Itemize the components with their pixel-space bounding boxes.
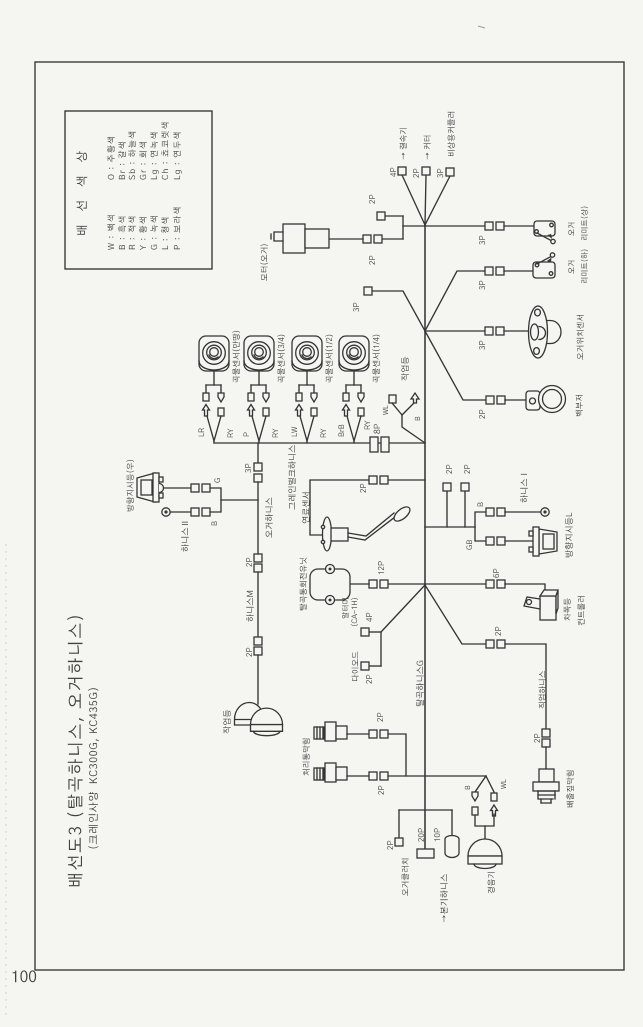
wire right branch y527 bbox=[425, 526, 475, 528]
label G bbox=[214, 478, 220, 482]
label 작업등 bbox=[223, 710, 231, 734]
terminal ring 하니스I bbox=[541, 508, 549, 516]
label 알터미 bbox=[342, 598, 349, 618]
label 12P bbox=[378, 561, 384, 574]
connector 2P diode bbox=[361, 662, 369, 670]
label 6P bbox=[493, 569, 499, 578]
label 2P bbox=[369, 256, 375, 265]
wire 3P to limit switch lower bbox=[504, 270, 534, 272]
label 곡물센서(3/4) bbox=[277, 335, 285, 383]
connector 4P 결속기 bbox=[398, 167, 406, 175]
wire main trunk vertical 탈곡하니스G bbox=[424, 225, 426, 849]
connector WL sq horn bbox=[491, 793, 497, 801]
label 2P bbox=[413, 169, 419, 178]
wire G/B bracket bbox=[210, 488, 221, 512]
label 오거 리미트(하) bbox=[568, 261, 575, 274]
wire 3P to limit switch upper bbox=[504, 225, 533, 227]
label 2P bbox=[464, 465, 470, 474]
wire plug1 joins bbox=[388, 734, 406, 776]
wire junction bus to 3P stacked bbox=[257, 443, 259, 463]
label 3P bbox=[479, 281, 485, 290]
label 컨트롤러 bbox=[578, 596, 585, 625]
wire 10P drop bbox=[451, 810, 453, 836]
wire 3P single to junction B bbox=[372, 291, 425, 331]
label 비상용커플러 bbox=[448, 112, 455, 156]
wire drop to clog sensor bbox=[545, 747, 547, 769]
wire work light branch bbox=[402, 415, 425, 443]
wire sensor 1 to bus bbox=[207, 416, 214, 443]
connector sensor 3 mating arrow bbox=[296, 405, 303, 417]
label LW bbox=[292, 427, 298, 437]
wire to WL connector bbox=[392, 403, 402, 415]
wire sensor 3 to bus bbox=[300, 416, 307, 443]
connector sensor 1 mating sq bbox=[218, 408, 224, 416]
wire junction C to 6P bbox=[425, 583, 486, 585]
label P bbox=[244, 432, 250, 436]
connector 3P stacked bbox=[254, 463, 262, 471]
limit switch upper 오거리미트(상) bbox=[534, 221, 555, 244]
label 다이오드 bbox=[352, 652, 359, 681]
label 2P bbox=[246, 558, 252, 567]
wire clutch drop bbox=[398, 810, 400, 838]
label B bbox=[212, 521, 218, 525]
label → 본기하니스 bbox=[440, 874, 448, 922]
connector 2P pair buzzer bbox=[486, 396, 494, 404]
label 작업등 upper bbox=[401, 357, 409, 381]
label 차폭등 bbox=[564, 598, 571, 620]
label WL bbox=[501, 779, 506, 789]
connector horn mating arrow bbox=[491, 805, 498, 816]
motor 모터(오거) bbox=[271, 224, 329, 253]
grain sensor 곡물센서(3/4) bbox=[244, 336, 274, 371]
label 연료센서 bbox=[302, 493, 310, 524]
label 곡물센서(1/2) bbox=[325, 335, 333, 383]
connector B arrow bbox=[411, 393, 419, 403]
connector sensor 1 arrow lead bbox=[218, 393, 224, 402]
wire sensor 3 leads bbox=[306, 371, 308, 385]
wire sensor 1 leads bbox=[213, 371, 215, 385]
wire to B pair harness I bbox=[475, 512, 486, 527]
wire junction C to 4P alt bbox=[381, 585, 425, 632]
label 2P bbox=[495, 627, 501, 636]
wire y810 horizontal bbox=[399, 809, 452, 811]
connector sensor 4 arrow lead bbox=[358, 393, 364, 402]
label 3P bbox=[479, 341, 485, 350]
label B bbox=[478, 502, 484, 506]
label → 결속기 bbox=[400, 128, 407, 159]
connector 20P bbox=[417, 849, 434, 858]
wire 2P to junction A bbox=[425, 175, 426, 225]
wire horn leads bbox=[475, 814, 494, 826]
turn signal lamp 방향지시등(우) bbox=[137, 473, 164, 502]
label 오거하니스 bbox=[265, 498, 273, 538]
label → 커터 bbox=[424, 136, 431, 160]
connector sensor 3 sq lead bbox=[296, 393, 302, 401]
wire to terminal harness I bbox=[505, 511, 541, 513]
label 하니스Ⅱ bbox=[181, 522, 189, 552]
label 2P bbox=[378, 786, 384, 795]
wire y776 horizontal to horn junction bbox=[388, 775, 486, 777]
wire left branch upper bbox=[257, 482, 259, 554]
wire left branch middle bbox=[257, 572, 259, 637]
fuel sender 연료센서 bbox=[321, 504, 412, 551]
wire horn split left bbox=[475, 776, 486, 792]
label WL bbox=[383, 405, 388, 415]
connector sensor 4 sq lead bbox=[343, 393, 349, 401]
wire 12P to rotation unit bbox=[350, 583, 369, 585]
label 3P bbox=[353, 303, 359, 312]
label 하니스M bbox=[246, 591, 254, 622]
wire plug2 to 2P bbox=[347, 775, 369, 777]
label RY bbox=[273, 429, 279, 438]
wire junction B to 3P pair second bbox=[425, 271, 485, 331]
auger position sensor 오거위치센서 bbox=[529, 306, 562, 358]
label LR bbox=[199, 428, 205, 436]
label 곡물센서(1/4) bbox=[372, 335, 380, 383]
connector 2P single motor bbox=[377, 212, 385, 220]
label 10P bbox=[434, 828, 440, 841]
connector G pair bbox=[191, 484, 199, 492]
wire to vertical drop bbox=[505, 644, 546, 729]
label GB bbox=[466, 540, 472, 550]
label 20P bbox=[418, 828, 424, 841]
wire 4P to junction A bbox=[402, 175, 425, 225]
wire sensor 2 to bus bbox=[252, 416, 259, 443]
wire junction A to motor bracket bbox=[403, 225, 425, 227]
connector 10P cylinder bbox=[445, 836, 459, 858]
label 2P bbox=[377, 713, 383, 722]
connector 3P pair third bbox=[485, 327, 493, 335]
label 2P bbox=[360, 484, 366, 493]
wire 2P stub 2 bbox=[464, 491, 466, 527]
label 탈곡하니스G bbox=[416, 661, 424, 706]
label 경음기 bbox=[488, 872, 495, 893]
label RY bbox=[365, 421, 371, 430]
wire junction C to 12P bbox=[388, 583, 425, 585]
label BrB bbox=[339, 425, 345, 437]
label 4P bbox=[366, 613, 372, 622]
connector 6P pair bbox=[486, 580, 494, 588]
connector 2P plug2 bbox=[369, 772, 377, 780]
wire junction B to 3P pair third bbox=[425, 330, 485, 332]
grain sensor 곡물센서(1/2) bbox=[292, 336, 322, 371]
connector 2P clutch bbox=[395, 838, 403, 846]
wire 4P stub bbox=[369, 631, 381, 633]
label 탈곡통회전유닛 bbox=[300, 558, 307, 610]
connector B arrow horn bbox=[472, 792, 478, 801]
connector sensor 3 arrow lead bbox=[311, 393, 317, 402]
label 오거위치센서 bbox=[577, 315, 584, 360]
connector 3P 비상용커플러 bbox=[446, 168, 454, 176]
connector 8P bbox=[370, 437, 378, 452]
connector sensor 2 mating arrow bbox=[248, 405, 255, 417]
label RY bbox=[321, 429, 327, 438]
connector 2P pair motor bbox=[374, 235, 382, 243]
label (CA-1H) bbox=[351, 598, 359, 626]
label B bbox=[415, 417, 420, 421]
wire to GB pair bbox=[475, 527, 486, 541]
connector sensor 2 sq lead bbox=[248, 393, 254, 401]
connector sensor 1 mating arrow bbox=[203, 405, 210, 417]
connector B pair harness I bbox=[486, 508, 494, 516]
connector WL sq bbox=[389, 395, 396, 403]
connector 2P 커터 bbox=[422, 167, 430, 175]
wire 2P stub 1 bbox=[446, 491, 448, 527]
wire 3P to position sensor bbox=[504, 330, 531, 332]
connector sensor 1 sq lead bbox=[203, 393, 209, 401]
wire sensor 4 to bus bbox=[347, 416, 354, 443]
connector 2P stacked lower bbox=[254, 637, 262, 645]
connector 2P fuel bbox=[369, 476, 377, 484]
wire GB to lamp L bbox=[505, 540, 533, 542]
connector sensor 4 mating arrow bbox=[343, 405, 350, 417]
connector GB pair bbox=[486, 537, 494, 545]
connector 2P plug1 bbox=[369, 730, 377, 738]
label 방향지시등(우) bbox=[126, 460, 134, 511]
scan artifact dots left edge bbox=[5, 544, 6, 1014]
wire motor bracket bbox=[402, 216, 404, 239]
label 2P bbox=[387, 841, 393, 850]
label 방향지시등L bbox=[565, 513, 573, 558]
clog sensor 배출짚막힘 bbox=[533, 769, 559, 803]
connector horn mating sq bbox=[472, 807, 478, 815]
clog plug 처리통막힘 1 bbox=[314, 727, 324, 739]
wire 6P to controller bbox=[505, 584, 545, 591]
connector B pair bbox=[191, 508, 199, 516]
connector 2P stacked drop bbox=[542, 729, 550, 737]
label 그레인벌크하니스 bbox=[288, 445, 296, 510]
connector sensor 3 mating sq bbox=[311, 408, 317, 416]
connector 2P stub 2 bbox=[461, 483, 469, 491]
label RY bbox=[228, 429, 234, 438]
connector 2P pair lower right bbox=[486, 640, 494, 648]
wire motor to 2P pair bbox=[330, 238, 363, 240]
wire left branch to work lamp bbox=[257, 655, 259, 704]
label 오거 리미트(상) bbox=[568, 223, 575, 236]
label 모터(오거) bbox=[260, 244, 268, 280]
title 배선도3 (탈곡하니스, 오거하니스) bbox=[67, 616, 84, 886]
label 2P bbox=[246, 648, 252, 657]
wire to B connector bbox=[402, 403, 414, 415]
label 백부저 bbox=[576, 395, 583, 416]
connector sensor 4 mating sq bbox=[358, 408, 364, 416]
label 2P bbox=[369, 195, 375, 204]
label 2P bbox=[534, 734, 540, 743]
legend title 배선색상 bbox=[76, 151, 87, 234]
wire plug1 to 2P bbox=[347, 733, 369, 735]
wire bracket to 2P single bbox=[385, 215, 403, 217]
scan tick top bbox=[478, 26, 485, 28]
wire bracket to 2P pair bbox=[382, 238, 403, 240]
limit switch lower 오거리미트(하) bbox=[533, 253, 555, 278]
label 배출짚막힘 bbox=[567, 771, 574, 808]
wire alt bracket bbox=[380, 632, 382, 666]
connector 4P alt bbox=[361, 628, 369, 636]
wire sensor bus bbox=[214, 442, 425, 444]
label 2P bbox=[446, 465, 452, 474]
connector 2P stub 1 bbox=[443, 483, 451, 491]
wire sensor 4 leads bbox=[353, 371, 355, 385]
horn 경음기 bbox=[468, 839, 502, 869]
wire junction B to 2P pair buzzer bbox=[425, 331, 486, 400]
threshing rotation unit 탈곡통회전유닛 bbox=[310, 565, 350, 605]
connector sensor 2 arrow lead bbox=[263, 393, 269, 402]
subtitle (크레인사양 KC300G, KC435G) bbox=[88, 688, 99, 848]
label 하니스Ⅰ bbox=[520, 474, 528, 503]
wire junction A to 3P pair upper bbox=[425, 225, 485, 227]
turn signal lamp 방향지시등L bbox=[529, 527, 557, 556]
back buzzer 백부저 bbox=[526, 386, 566, 413]
page number 100 bbox=[13, 970, 36, 982]
clog plug 처리통막힘 2 bbox=[314, 768, 324, 780]
work lamp 작업등 bbox=[235, 703, 283, 736]
label 4P bbox=[390, 168, 396, 177]
wire terminal to B pair bbox=[170, 511, 191, 513]
connector 3P pair upper bbox=[485, 222, 493, 230]
legend box 배선색상 bbox=[65, 111, 212, 269]
connector sensor 2 mating sq bbox=[263, 408, 269, 416]
grain sensor 곡물센서(만땅) bbox=[199, 336, 229, 371]
wire sensor 2 leads bbox=[258, 371, 260, 385]
label 직업하니스 bbox=[539, 671, 546, 709]
grain sensor 곡물센서(1/4) bbox=[339, 336, 369, 371]
legend column 1 wire colors bbox=[107, 208, 181, 250]
label B bbox=[465, 786, 470, 790]
label 8P bbox=[374, 424, 381, 434]
wire 2P to buzzer bbox=[505, 399, 527, 401]
label 곡물센서(만땅) bbox=[232, 331, 240, 383]
connector 12P pair bbox=[369, 580, 377, 588]
wire 3P to junction A bbox=[425, 176, 450, 225]
side lamp controller 차폭등컨트롤러 bbox=[524, 590, 558, 620]
label 3P bbox=[479, 236, 485, 245]
wire 2P diode stub bbox=[369, 665, 381, 667]
wire horn split right bbox=[486, 776, 494, 792]
label 2P bbox=[366, 675, 372, 684]
wire junction C to 2P pair lower right bbox=[425, 585, 486, 644]
legend column 2 wire colors bbox=[107, 123, 182, 180]
label 3P bbox=[437, 169, 443, 178]
connector 3P single bbox=[364, 287, 372, 295]
label 2P bbox=[479, 410, 485, 419]
connector 3P pair second bbox=[485, 267, 493, 275]
wire fuel branch bbox=[388, 479, 425, 481]
label 오거클러치 bbox=[402, 859, 409, 896]
connector 2P stacked upper bbox=[254, 554, 262, 562]
wire lamp to G pair bbox=[164, 487, 191, 489]
label 처리통막힘 bbox=[303, 739, 310, 776]
terminal ring 하니스II bbox=[162, 508, 170, 516]
label 3P bbox=[245, 464, 251, 473]
